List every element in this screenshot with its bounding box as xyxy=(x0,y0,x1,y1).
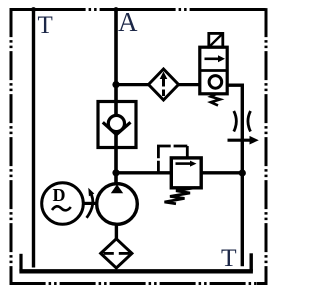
wire T return line left xyxy=(32,8,35,268)
node A border crossing xyxy=(114,7,119,12)
wire pump outlet to relief valve xyxy=(116,171,171,174)
solenoid diagonal xyxy=(209,33,223,47)
relief valve spring xyxy=(165,188,196,204)
wire valve right port xyxy=(227,85,242,266)
svg-text:D: D xyxy=(53,185,66,205)
tank left wall xyxy=(19,254,22,272)
motor-pump shaft xyxy=(83,202,97,205)
check valve C1 enclosure xyxy=(98,102,136,148)
check valve ball xyxy=(108,115,124,131)
svg-text:T: T xyxy=(221,243,237,272)
svg-text:A: A xyxy=(118,7,138,37)
pump output triangle xyxy=(111,184,123,193)
rotation arrow arc xyxy=(87,193,93,218)
throttle left arc xyxy=(234,111,237,132)
tank bottom xyxy=(19,269,253,273)
enclosure border (chain line) xyxy=(10,8,268,285)
relief valve inner arrow xyxy=(176,162,191,165)
svg-text:T: T xyxy=(38,12,53,39)
node junction relief output xyxy=(239,169,246,176)
wire pump suction xyxy=(115,224,118,240)
outlet arrow xyxy=(228,139,251,142)
valve position divider xyxy=(200,69,227,72)
air filter arrow xyxy=(160,72,168,97)
tank right wall xyxy=(249,253,252,271)
suction filter F2 (diamond) xyxy=(101,239,132,268)
air filter F1 (diamond) xyxy=(149,69,179,100)
node junction A branch xyxy=(112,81,119,88)
solenoid valve V1 body xyxy=(200,47,227,94)
valve return spring xyxy=(211,94,220,106)
check valve inlet stub xyxy=(114,102,118,117)
valve ball (closed position) xyxy=(209,76,222,89)
throttle right arc xyxy=(248,111,251,132)
wire check valve to pump xyxy=(114,135,118,185)
relief valve RV1 body xyxy=(171,158,201,188)
wire relief valve to tank line xyxy=(201,171,242,174)
wire A line upper xyxy=(114,8,118,115)
suction filter dashes xyxy=(104,252,114,255)
relief valve pilot line (dashed) xyxy=(157,146,160,173)
node junction pump outlet xyxy=(112,169,119,176)
pump P1 xyxy=(97,184,138,225)
node T border crossing xyxy=(31,7,36,12)
valve flow arrow (open position) xyxy=(205,57,220,60)
wire branch to air filter xyxy=(116,83,150,86)
check valve seat xyxy=(103,122,131,134)
solenoid coil box xyxy=(209,33,223,47)
motor tilde xyxy=(52,206,71,210)
electric motor M1 xyxy=(42,183,84,225)
wire filter to valve xyxy=(179,83,202,86)
